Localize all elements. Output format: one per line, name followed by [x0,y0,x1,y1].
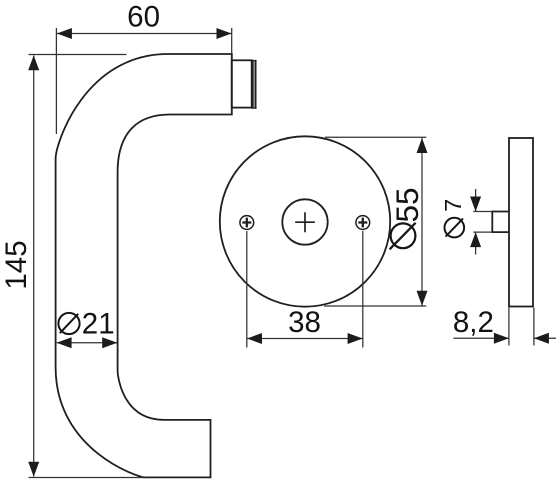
arrowhead Ø7 upper (points down) [470,197,481,212]
arrowhead 60 left [57,28,72,39]
svg-text:145: 145 [0,240,33,289]
screw hole left [240,216,254,230]
svg-text:55: 55 [389,187,425,222]
handle outline (lever side view) [56,54,232,477]
label Ø21 diameter symbol [58,313,79,334]
label Ø7 diameter symbol [445,218,465,238]
dim Ø55: dimension line [421,138,423,306]
dim 145: dimension line [33,56,35,477]
spindle nub on plate [492,212,509,233]
dim 8,2: dimension line segments [454,337,556,339]
dim 38: dimension line [247,338,362,340]
arrowhead 38 left [247,333,262,344]
arrowhead 60 right [217,28,232,39]
spindle end ring [253,60,256,109]
arrowhead Ø55 top [417,138,428,153]
rosette center hole [282,199,327,244]
dim 60: dimension line [57,33,232,35]
arrowhead Ø7 lower (points up) [470,232,481,247]
svg-text:60: 60 [127,0,160,33]
rosette circle (front view) [220,136,390,306]
arrowhead 145 bottom [28,462,39,477]
spindle collar [232,60,252,107]
dim Ø7: dimension line segments [475,189,477,255]
arrowhead Ø21 left [57,337,72,348]
dim Ø55: extension lines [324,137,426,306]
label Ø55 diameter symbol [390,223,416,250]
dim 145: extension lines [29,55,146,478]
arrowhead 38 right [348,333,363,344]
svg-text:38: 38 [288,306,321,339]
arrowhead 8,2 right (points left) [534,333,549,344]
arrowhead 8,2 left (points right) [494,333,509,344]
dim 8,2: extension lines [509,308,534,346]
center cross [295,212,315,232]
arrowhead 145 top [28,55,39,70]
dim 60: extension lines [56,28,231,134]
svg-text:8,2: 8,2 [453,306,494,339]
arrowhead Ø21 right [102,337,117,348]
rosette plate (side view) [509,138,533,307]
arrowhead Ø55 bottom [417,291,428,306]
dim Ø21: dimension line [57,342,117,344]
svg-text:21: 21 [82,308,115,341]
dim Ø7: extension lines [473,212,492,233]
screw hole right [356,216,370,230]
dim 38: extension lines [247,231,363,348]
svg-text:7: 7 [440,199,466,212]
